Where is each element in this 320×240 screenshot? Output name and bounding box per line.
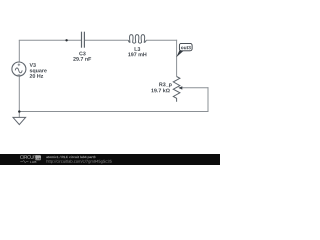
wire: source top lead (left vertical upper) xyxy=(18,40,20,62)
voltage source V3 circle xyxy=(12,62,26,76)
wire: right vertical, corner to R3_p top xyxy=(176,40,178,77)
wire: top horizontal, L3 to top-right corner xyxy=(146,39,177,41)
net label out3 text xyxy=(181,46,191,49)
label V3 type xyxy=(30,69,47,73)
label V3 name xyxy=(30,63,36,67)
potentiometer R3_p zigzag xyxy=(173,77,180,102)
label L3 name xyxy=(135,47,141,51)
label R3_p name xyxy=(159,83,171,88)
node junction dot at ground xyxy=(18,110,20,112)
caption url xyxy=(46,160,111,164)
capacitor C3 right plate xyxy=(83,32,85,48)
node junction dot on top wire xyxy=(65,39,67,41)
potentiometer R3_p wiper arrow xyxy=(178,86,182,89)
net flag out3 pointer xyxy=(176,50,183,57)
wire: top horizontal, corner to C3 left plate xyxy=(19,39,81,41)
capacitor C3 left plate xyxy=(81,32,83,48)
wire: R3_p wiper to right loop xyxy=(181,87,209,89)
label C3 value xyxy=(73,57,91,61)
logo small LAB xyxy=(30,161,36,163)
ground symbol xyxy=(13,117,26,124)
wire: right loop vertical xyxy=(207,87,209,112)
label L3 value xyxy=(128,53,146,57)
label C3 name xyxy=(79,52,85,56)
wire: source bottom lead down to bottom wire xyxy=(18,76,20,111)
wire: ground stub xyxy=(18,112,20,118)
caption title xyxy=(46,156,95,159)
net flag out3 box xyxy=(179,43,192,50)
inductor L3 coil xyxy=(128,35,146,44)
label R3_p value xyxy=(151,88,169,92)
logo badge xyxy=(35,155,41,160)
V3 plus sign xyxy=(18,64,21,67)
footer bar xyxy=(0,154,220,165)
wire: top horizontal, C3 to L3 xyxy=(85,39,129,41)
V3 sine glyph xyxy=(15,68,22,73)
V3 minus sign xyxy=(18,74,21,76)
logo badge LAB text xyxy=(36,158,41,160)
logo wave glyph xyxy=(20,160,28,162)
wire: bottom horizontal xyxy=(19,111,208,113)
label V3 freq xyxy=(30,74,43,78)
logo word CIRCUIT xyxy=(20,155,37,158)
